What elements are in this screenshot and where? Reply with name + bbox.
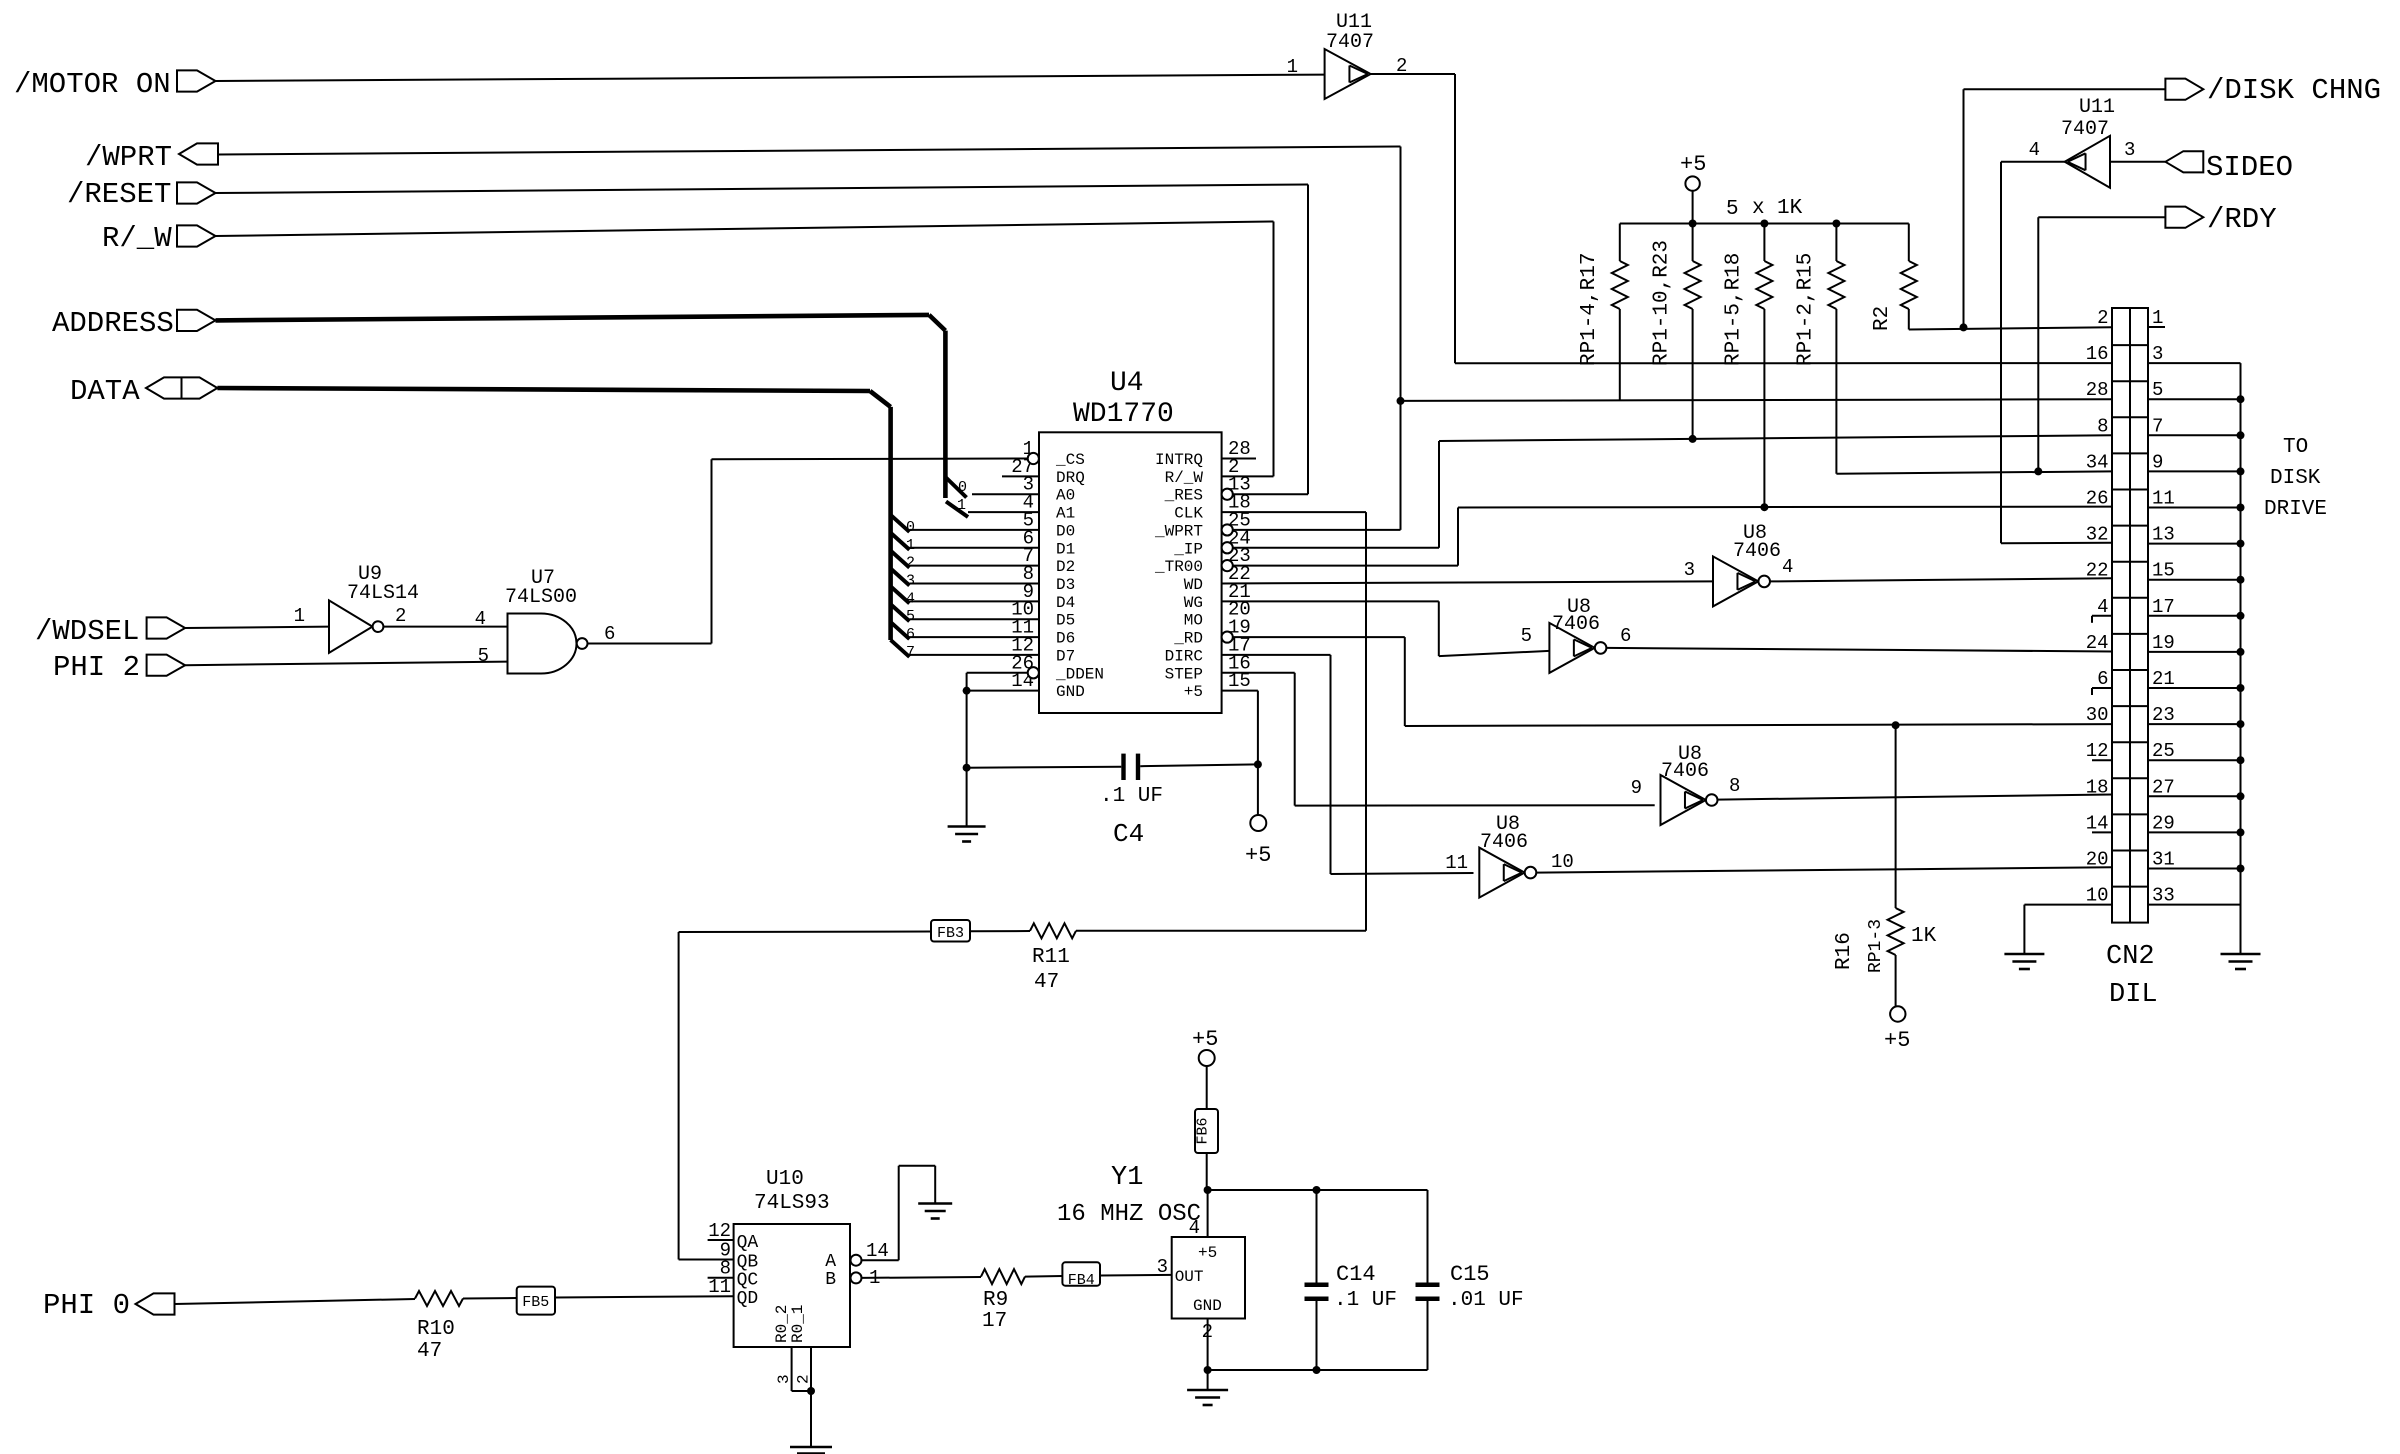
svg-text:27: 27 (2152, 776, 2175, 798)
resistor RP1-5,R18 1K (1763, 224, 1765, 262)
svg-text:U4: U4 (1110, 368, 1144, 399)
svg-text:D0: D0 (1056, 522, 1075, 540)
svg-text:SIDEO: SIDEO (2206, 151, 2293, 184)
svg-text:3: 3 (1684, 559, 1695, 581)
svg-text:FB6: FB6 (1195, 1117, 1212, 1144)
inverter U8 7406 (pins 5-6) (1549, 623, 1594, 673)
wire U10 pin14 to ground (862, 1259, 899, 1261)
ferrite bead FB4 (1062, 1262, 1100, 1285)
svg-text:D1: D1 (1056, 540, 1075, 558)
svg-text:11: 11 (708, 1276, 731, 1298)
svg-text:3: 3 (2152, 343, 2163, 365)
svg-text:RP1-3: RP1-3 (1866, 919, 1886, 973)
svg-text:4: 4 (906, 590, 915, 607)
svg-text:47: 47 (1034, 971, 1059, 994)
capacitor C15 .01 UF (1427, 1190, 1429, 1283)
svg-text:PHI 0: PHI 0 (43, 1289, 130, 1322)
svg-text:4: 4 (475, 608, 486, 630)
svg-text:WG: WG (1184, 594, 1203, 612)
svg-text:30: 30 (2086, 704, 2109, 726)
ground under Y1 (1207, 1370, 1209, 1389)
wire R/_W to U4 pin2 (216, 222, 1274, 237)
wire U4 pin24 _IP to CN2 pin8 (1233, 547, 1439, 549)
resistor R11 47 (1030, 923, 1076, 938)
svg-text:4: 4 (1189, 1217, 1200, 1239)
svg-text:R2: R2 (1871, 306, 1894, 331)
wire U4 pin15 +5 (1222, 690, 1258, 692)
svg-text:26: 26 (2086, 488, 2109, 510)
svg-text:3: 3 (906, 572, 915, 589)
svg-text:GND: GND (1056, 683, 1085, 701)
junction RP1-5 on pin26 row (1760, 503, 1768, 511)
svg-text:31: 31 (2152, 849, 2175, 871)
svg-text:R0_1: R0_1 (789, 1305, 807, 1343)
svg-text:_RES: _RES (1164, 487, 1203, 505)
U4 pin27 DRQ stub (1002, 475, 1039, 477)
wire U4 _DDEN to GND net (967, 672, 1028, 674)
wire +5 rail to capacitors (1208, 1189, 1428, 1191)
svg-text:U10: U10 (766, 1168, 804, 1191)
svg-text:+5: +5 (1884, 1028, 1910, 1053)
svg-text:16 MHZ OSC: 16 MHZ OSC (1057, 1201, 1201, 1228)
wire RP1-2 to CN2 pin34 row (1836, 471, 2112, 473)
wire PHI 0 to R10 (175, 1299, 416, 1304)
wire U4 pin16 STEP to U8 pin9 (1222, 672, 1295, 674)
svg-text:14: 14 (2086, 812, 2109, 834)
bus entry D2 with bit label 2 (891, 551, 910, 568)
bus ADDRESS (216, 315, 930, 321)
svg-text:19: 19 (2152, 632, 2175, 654)
wire U11 pin4 to CN2 pin32 (2001, 161, 2065, 163)
svg-text:34: 34 (2086, 451, 2109, 473)
svg-text:_IP: _IP (1173, 540, 1203, 558)
svg-text:74LS93: 74LS93 (754, 1192, 830, 1215)
wire GND net down to C4 (966, 691, 968, 768)
svg-text:QC: QC (737, 1271, 759, 1291)
ferrite bead FB3 (931, 920, 970, 942)
svg-text:16: 16 (2086, 343, 2109, 365)
wire PHI 2 to U7 pin5 (185, 662, 508, 666)
junction /WPRT row28 (1397, 397, 1405, 405)
svg-text:QD: QD (737, 1289, 759, 1309)
svg-text:R/_W: R/_W (1165, 469, 1204, 487)
svg-text:STEP: STEP (1165, 665, 1203, 683)
bus entry D5 with bit label 5 (891, 604, 910, 621)
svg-text:+5: +5 (1184, 683, 1203, 701)
resistor RP1-2,R15 1K (1835, 224, 1837, 262)
svg-text:11: 11 (2152, 488, 2175, 510)
svg-text:D6: D6 (1056, 630, 1075, 648)
ground at C4 left (966, 768, 968, 826)
svg-text:13: 13 (2152, 524, 2175, 546)
svg-text:9: 9 (1631, 777, 1642, 799)
U4 pin1 _CS bubble (1028, 453, 1039, 464)
bus entry D1 with bit label 1 (891, 533, 910, 550)
svg-text:_DDEN: _DDEN (1055, 665, 1104, 683)
svg-text:QA: QA (737, 1233, 759, 1253)
inverter U8 7406 (pins 11-10) (1479, 848, 1524, 898)
svg-text:x: x (1752, 197, 1765, 220)
svg-text:3: 3 (775, 1374, 793, 1384)
svg-text:7: 7 (906, 644, 915, 661)
ferrite bead FB5 (517, 1287, 555, 1315)
svg-text:R10: R10 (417, 1318, 455, 1341)
svg-text:RP1-5,R18: RP1-5,R18 (1722, 253, 1745, 366)
svg-text:74LS00: 74LS00 (505, 586, 577, 609)
U4 pin26 _DDEN bubble (1028, 667, 1039, 678)
inverter U8 7406 (pins 9-8) (1661, 775, 1706, 825)
wire FB5 to U10 QD (555, 1296, 734, 1297)
svg-text:B: B (825, 1270, 836, 1290)
ferrite bead FB6 (1195, 1109, 1218, 1153)
wire U7 pin6 to U4 _CS (588, 643, 712, 645)
svg-text:WD: WD (1184, 576, 1203, 594)
bus to disk drive (right of CN2) (2240, 363, 2242, 954)
junction RP1-10 on pin8 row (1689, 435, 1697, 443)
wire U10 pin1 to R9 (862, 1276, 982, 1279)
svg-text:/WPRT: /WPRT (85, 141, 172, 174)
svg-text:74LS14: 74LS14 (347, 582, 419, 605)
svg-text:29: 29 (2152, 812, 2175, 834)
svg-text:10: 10 (1551, 851, 1574, 873)
svg-text:1K: 1K (1777, 197, 1803, 220)
svg-text:1: 1 (294, 605, 305, 627)
svg-text:C15: C15 (1450, 1262, 1490, 1287)
svg-text:ADDRESS: ADDRESS (52, 307, 174, 340)
wire U4 pin25 _WPRT (1233, 529, 1401, 531)
power +5 below R16 (1890, 1006, 1905, 1021)
svg-text:47: 47 (417, 1340, 442, 1363)
wire /MOTOR ON to U11 pin1 (216, 75, 1325, 81)
svg-text:A1: A1 (1056, 505, 1075, 523)
svg-text:2: 2 (906, 555, 915, 572)
wire /RDY to pin34 row (2038, 216, 2165, 218)
wire Y1 pin2 stub (1207, 1319, 1209, 1371)
wire U8 pin10 to CN2 pin20 (1536, 867, 2112, 872)
svg-text:TO: TO (2283, 436, 2308, 459)
svg-text:7406: 7406 (1733, 540, 1781, 563)
svg-text:5: 5 (1521, 625, 1532, 647)
svg-text:DRQ: DRQ (1056, 469, 1085, 487)
svg-text:GND: GND (1193, 1297, 1222, 1315)
svg-text:9: 9 (2152, 451, 2163, 473)
U4 pin19 _RD bubble (1222, 631, 1233, 642)
svg-text:17: 17 (2152, 596, 2175, 618)
inverter U8 7406 (pins 3-4) (1713, 556, 1758, 606)
svg-text:11: 11 (1445, 852, 1468, 874)
svg-text:_CS: _CS (1055, 451, 1085, 469)
wire U4 pin13 _RES (1233, 493, 1308, 495)
wire SIDEO to U11 pin3 (2110, 161, 2165, 163)
svg-text:6: 6 (604, 623, 615, 645)
svg-text:A0: A0 (1056, 487, 1075, 505)
svg-text:7407: 7407 (2061, 118, 2109, 141)
svg-text:CN2: CN2 (2106, 942, 2155, 972)
svg-text:+5: +5 (1198, 1244, 1217, 1262)
port /DISK CHNG (2165, 79, 2203, 100)
junction C4 right / +5 stem (1254, 760, 1262, 768)
svg-text:4: 4 (2097, 596, 2108, 618)
wire /RESET to U4 _RES (216, 185, 1309, 194)
svg-text:20: 20 (2086, 849, 2109, 871)
port /RDY (2165, 207, 2203, 228)
U4 pin13 _RES bubble (1222, 489, 1233, 500)
U10 QA stub (708, 1239, 734, 1241)
svg-text:28: 28 (2086, 379, 2109, 401)
bus DATA (217, 388, 870, 391)
svg-text:RP1-2,R15: RP1-2,R15 (1794, 253, 1817, 366)
wire U4 pin22 WD to U8 pin3 (1222, 581, 1713, 583)
svg-text:Y1: Y1 (1111, 1163, 1143, 1193)
U10 pin1 B input bubble (851, 1272, 862, 1283)
svg-text:C14: C14 (1336, 1262, 1376, 1287)
svg-text:3: 3 (2124, 139, 2135, 161)
svg-text:+5: +5 (1680, 152, 1706, 177)
svg-text:R9: R9 (983, 1289, 1008, 1312)
wire Y1 pin4 stub (1207, 1190, 1209, 1237)
U4 pin28 INTRQ stub (1222, 458, 1256, 460)
svg-text:RP1-4,R17: RP1-4,R17 (1578, 253, 1601, 366)
bus entry D7 with bit label 7 (891, 640, 910, 657)
wire R10 to FB5 (463, 1297, 517, 1300)
svg-text:8: 8 (1729, 775, 1740, 797)
wire U8 pin8 to CN2 pin18 (1718, 795, 2113, 800)
wire /WDSEL to U9 pin1 (185, 627, 329, 628)
wire R2 to CN2 pin2 row (1909, 327, 2112, 329)
svg-text:0: 0 (958, 479, 967, 496)
wire /WPRT net (218, 147, 1401, 155)
svg-text:D5: D5 (1056, 612, 1075, 630)
IC U10 74LS93 (734, 1224, 850, 1347)
svg-text:12: 12 (2086, 740, 2109, 762)
port SIDEO (2165, 151, 2203, 172)
junction U10 reset pins (807, 1387, 815, 1395)
svg-text:5: 5 (906, 608, 915, 625)
svg-text:10: 10 (2086, 885, 2109, 907)
bus entry D4 with bit label 4 (891, 586, 910, 603)
svg-text:24: 24 (2086, 632, 2109, 654)
svg-text:A: A (825, 1252, 836, 1272)
svg-text:32: 32 (2086, 524, 2109, 546)
svg-text:4: 4 (1782, 556, 1793, 578)
svg-text:PHI 2: PHI 2 (53, 651, 140, 684)
svg-text:2: 2 (2097, 307, 2108, 329)
ground at U10 pin14 (918, 1202, 952, 1205)
svg-text:7406: 7406 (1552, 613, 1600, 636)
wire FB6 to +5 rail (1206, 1153, 1208, 1190)
svg-text:5: 5 (2152, 379, 2163, 401)
svg-text:DATA: DATA (70, 375, 140, 408)
wire U4 pin21 WG to U8 pin5 (1222, 600, 1439, 602)
connector CN2 DIL (2112, 308, 2148, 923)
svg-text:OUT: OUT (1175, 1268, 1204, 1286)
svg-text:7407: 7407 (1326, 31, 1374, 54)
wire FB3 to R11 (970, 930, 1030, 932)
U11 buffer 7407 (pins 1-2) (1325, 49, 1371, 99)
svg-text:_WPRT: _WPRT (1154, 522, 1203, 540)
power +5 at U4 pin15 (1257, 764, 1259, 815)
wire U11 pin2 to CN2 pin16 (1371, 73, 1455, 75)
wire R9 to FB4 (1025, 1275, 1062, 1278)
U10 pin14 A input bubble (851, 1255, 862, 1266)
wire U4 pin17 DIRC to U8 pin11 (1222, 654, 1331, 656)
svg-text:DISK: DISK (2270, 467, 2321, 490)
svg-text:2: 2 (395, 605, 406, 627)
svg-text:7406: 7406 (1661, 760, 1709, 783)
svg-text:1: 1 (1287, 56, 1298, 78)
svg-text:INTRQ: INTRQ (1155, 451, 1203, 469)
capacitor C14 .1 UF (1316, 1190, 1318, 1283)
ground at CN2 right bus (2221, 953, 2261, 956)
svg-text:DRIVE: DRIVE (2264, 498, 2327, 521)
svg-text:4: 4 (2029, 139, 2040, 161)
svg-text:D3: D3 (1056, 576, 1075, 594)
wire ground rail under Y1 (1208, 1369, 1428, 1371)
oscillator Y1 16 MHZ OSC (1172, 1237, 1245, 1319)
wire clock feedback to U10 QB (678, 932, 680, 1260)
wire U4 pin19 _RD to CN2 pin30 (1233, 636, 1405, 638)
wire U4 pin18 CLK down to R11 (1222, 511, 1366, 513)
svg-text:.1 UF: .1 UF (1100, 785, 1163, 808)
svg-text:D4: D4 (1056, 594, 1075, 612)
svg-text:_TR00: _TR00 (1154, 558, 1203, 576)
ground at CN2 pin10 (2004, 953, 2044, 956)
power +5 at FB6 (1199, 1050, 1215, 1066)
junction R16 on pin30 row (1892, 721, 1900, 729)
svg-text:5: 5 (1726, 198, 1739, 221)
svg-text:C4: C4 (1113, 819, 1144, 849)
svg-text:D2: D2 (1056, 558, 1075, 576)
wire U4 pin2 R/_W up (1222, 475, 1274, 477)
svg-text:6: 6 (906, 626, 915, 643)
svg-text:1K: 1K (1911, 925, 1937, 948)
svg-text:MO: MO (1184, 612, 1203, 630)
svg-text:23: 23 (2152, 704, 2175, 726)
bus entry D3 with bit label 3 (891, 568, 910, 585)
wire U4 pin23 _TR00 to CN2 pin26 (1233, 565, 1458, 567)
svg-text:+5: +5 (1192, 1027, 1218, 1052)
svg-text:/WDSEL: /WDSEL (35, 615, 139, 648)
wire CN2 pin10 to ground (2024, 904, 2112, 906)
svg-text:7: 7 (2152, 415, 2163, 437)
svg-text:.1 UF: .1 UF (1334, 1289, 1397, 1312)
svg-text:_RD: _RD (1173, 630, 1203, 648)
bus entry A1 with bit label 1 (946, 502, 968, 518)
capacitor C4 .1 UF (967, 766, 1122, 769)
svg-text:1: 1 (2152, 307, 2163, 329)
IC U4 WD1770 (1039, 432, 1222, 713)
svg-text:1: 1 (906, 537, 915, 554)
svg-text:3: 3 (1157, 1256, 1168, 1278)
svg-text:14: 14 (866, 1240, 889, 1262)
svg-text:21: 21 (2152, 668, 2175, 690)
svg-text:FB4: FB4 (1068, 1272, 1095, 1289)
svg-text:+5: +5 (1245, 843, 1271, 868)
resistor R9 17 (981, 1269, 1025, 1284)
U4 pin23 _TR00 bubble (1222, 560, 1233, 571)
svg-text:R16: R16 (1833, 932, 1856, 970)
svg-text:/RESET: /RESET (67, 178, 171, 211)
ground under U10 reset pins (810, 1391, 812, 1446)
svg-text:25: 25 (2152, 740, 2175, 762)
svg-text:7406: 7406 (1480, 831, 1528, 854)
svg-text:22: 22 (2086, 560, 2109, 582)
wire +5 rail (1620, 223, 1909, 225)
svg-text:1: 1 (957, 497, 966, 514)
svg-text:/RDY: /RDY (2207, 203, 2277, 236)
svg-text:18: 18 (2086, 776, 2109, 798)
svg-text:2: 2 (795, 1374, 813, 1384)
svg-text:D7: D7 (1056, 647, 1075, 665)
bus entry D0 with bit label 0 (891, 515, 910, 532)
svg-text:/DISK CHNG: /DISK CHNG (2207, 74, 2381, 107)
svg-text:5: 5 (478, 645, 489, 667)
svg-text:6: 6 (2097, 668, 2108, 690)
svg-text:R/_W: R/_W (102, 222, 172, 255)
wire FB4 to Y1 OUT pin3 (1100, 1274, 1172, 1277)
svg-text:CLK: CLK (1174, 505, 1203, 523)
wire /WPRT to CN2 pin28 (1401, 399, 2113, 401)
wire FB3 feedback from clock (679, 931, 931, 934)
svg-text:FB5: FB5 (522, 1294, 549, 1311)
U4 pin25 _WPRT bubble (1222, 524, 1233, 535)
svg-text:/MOTOR ON: /MOTOR ON (14, 68, 171, 101)
wire U4 GND pin14 (967, 690, 1039, 692)
bus entry D6 with bit label 6 (891, 622, 910, 639)
svg-text:DIL: DIL (2109, 980, 2158, 1010)
svg-text:R11: R11 (1032, 946, 1070, 969)
U10 QC stub (708, 1277, 734, 1279)
nand U7 74LS00 (pins 4,5-6) (508, 614, 577, 674)
svg-text:15: 15 (2152, 560, 2175, 582)
resistor R16 RP1-3 1K (1895, 725, 1897, 908)
svg-text:33: 33 (2152, 885, 2175, 907)
U4 pin24 _IP bubble (1222, 542, 1233, 553)
inverter U9 74LS14 (pins 1-2) (329, 600, 373, 652)
wire /DISK CHNG to CN2 pin2 (1964, 88, 2166, 90)
svg-text:RP1-10,R23: RP1-10,R23 (1651, 240, 1674, 366)
resistor R2 1K (1908, 224, 1910, 262)
buffer U11 7407 (pins 4-3) (2065, 136, 2110, 188)
svg-text:WD1770: WD1770 (1073, 399, 1174, 430)
svg-text:DIRC: DIRC (1165, 647, 1203, 665)
svg-text:17: 17 (982, 1310, 1007, 1333)
resistor R10 47 (415, 1291, 463, 1306)
bus entry A0 with bit label 0 (945, 477, 966, 498)
svg-text:.01 UF: .01 UF (1448, 1289, 1524, 1312)
resistor RP1-10,R23 1K (1692, 224, 1694, 262)
resistor RP1-4,R17 1K (1619, 224, 1621, 262)
svg-text:6: 6 (1620, 625, 1631, 647)
svg-text:0: 0 (906, 519, 915, 536)
wire U8 pin6 to CN2 pin24 (1606, 648, 2112, 652)
svg-text:QB: QB (737, 1253, 759, 1273)
svg-text:8: 8 (2097, 415, 2108, 437)
svg-text:U11: U11 (2079, 96, 2115, 119)
wire R11 to CLK vertical (1076, 930, 1366, 932)
wire U9 pin2 to U7 pin4 (384, 626, 508, 628)
wire U8 pin4 to CN2 pin22 (1770, 578, 2112, 581)
svg-text:FB3: FB3 (937, 925, 964, 942)
